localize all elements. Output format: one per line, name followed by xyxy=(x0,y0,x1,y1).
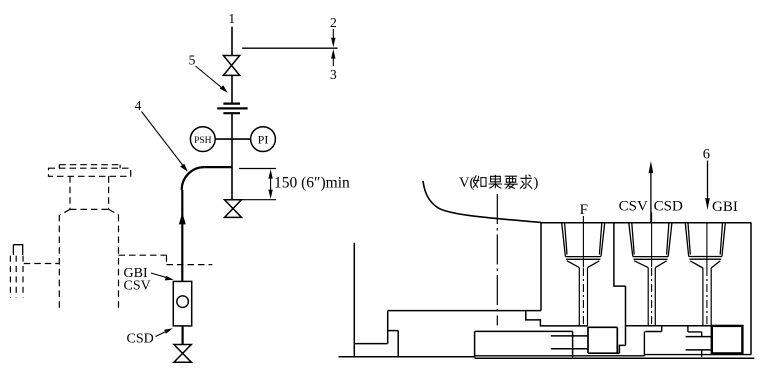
arrow CSV/CSD up xyxy=(650,173,652,223)
left wall vertical xyxy=(387,311,389,344)
svg-text:PSH: PSH xyxy=(194,136,212,146)
wellhead chamfers (dashed) xyxy=(60,209,118,214)
valve CSD (bowtie) xyxy=(174,345,191,363)
svg-text:V(: V( xyxy=(459,175,474,191)
svg-text:1: 1 xyxy=(228,11,235,26)
wire between valve and orifice xyxy=(231,75,233,103)
valve body GBI/CSV rectangle xyxy=(173,281,191,326)
wire gauges connector xyxy=(215,138,250,140)
arrow 6 down to GBI xyxy=(707,161,709,200)
svg-text:PI: PI xyxy=(258,133,269,147)
centerline F xyxy=(582,216,584,267)
tube F xyxy=(579,268,587,326)
right ledge xyxy=(644,354,751,356)
box B1 xyxy=(588,327,619,353)
branch step (dashed) xyxy=(166,255,168,264)
block left edge xyxy=(540,222,542,310)
tube CSV xyxy=(648,268,655,326)
glyphs ruguoyaoqiu (hand-drawn CJK) xyxy=(473,175,533,189)
svg-text:): ) xyxy=(534,175,539,191)
B1 jog xyxy=(619,345,625,353)
elbow arc xyxy=(182,167,205,190)
cup GBI xyxy=(685,223,725,268)
fork lines left xyxy=(551,336,588,349)
svg-text:CSV: CSV xyxy=(619,198,648,214)
ledge horizontal 310 xyxy=(388,310,541,312)
tube GBI xyxy=(703,268,711,326)
centerline CSV xyxy=(651,213,653,268)
left shelf xyxy=(354,343,387,345)
leader GBI/CSV xyxy=(151,273,169,278)
svg-text:3: 3 xyxy=(330,67,337,82)
gauge PSH xyxy=(190,127,215,152)
flowline profile curve xyxy=(423,181,541,222)
leader from 5 xyxy=(196,66,225,90)
svg-text:2: 2 xyxy=(330,15,337,30)
fork lines right xyxy=(686,337,712,350)
right block xyxy=(339,146,755,358)
gauge PI xyxy=(251,127,276,152)
wellhead neck (dashed) xyxy=(70,176,109,209)
side outlet box xyxy=(13,245,22,255)
staircase under 310 ledge xyxy=(526,311,588,326)
flow line vertical xyxy=(181,190,183,282)
wellhead flange rect (dashed) xyxy=(49,168,131,176)
RIGHT-DIAGRAM xyxy=(423,175,541,326)
shelf right of CSV xyxy=(688,326,702,337)
svg-text:150 (6″)min: 150 (6″)min xyxy=(274,175,350,192)
internal vertical 625 xyxy=(625,286,627,345)
wire below valve body xyxy=(182,326,184,345)
centerline V (dash-dot) xyxy=(496,194,498,325)
svg-text:CSD: CSD xyxy=(127,332,154,347)
baseline xyxy=(339,357,755,358)
cup CSV xyxy=(629,223,672,268)
arrow 2 down xyxy=(332,29,334,38)
cup F xyxy=(562,223,605,268)
svg-text:CSV: CSV xyxy=(124,278,151,293)
internal step 614 xyxy=(614,222,626,286)
node line 2-3 xyxy=(242,47,338,49)
left stub horizontal xyxy=(388,330,399,332)
left box xyxy=(475,331,573,357)
svg-text:F: F xyxy=(580,202,588,218)
drop vertical 644 xyxy=(643,332,645,356)
flow arrow up xyxy=(179,212,186,224)
valve body circle xyxy=(177,296,189,308)
dimension tick top xyxy=(239,168,276,170)
left box bottom xyxy=(475,355,645,357)
elbow horizontal xyxy=(204,166,232,168)
valve 5 (needle valve bowtie) xyxy=(223,56,239,76)
bleed valve (bottom of vent) xyxy=(225,200,242,218)
block right edge xyxy=(750,222,752,354)
wellhead body walls (dashed) xyxy=(59,215,118,311)
side outlet flange lines (dashed) xyxy=(10,256,23,298)
leader from 4 xyxy=(142,112,185,168)
under-cups horizontal xyxy=(626,325,712,327)
wellhead flange top face (dashed) xyxy=(59,165,120,169)
side outlet connect line (dashed) xyxy=(24,263,60,265)
fork drop to base xyxy=(701,350,703,357)
centerline GBI xyxy=(706,223,708,268)
svg-text:GBI: GBI xyxy=(712,199,738,215)
arrow 3 up xyxy=(332,58,334,66)
shelf under CSV xyxy=(645,326,661,332)
block top line xyxy=(541,222,751,224)
branch line upper (dashed) xyxy=(119,254,167,256)
right box (bold) xyxy=(712,326,743,354)
svg-text:5: 5 xyxy=(189,53,196,68)
orifice/flange fitting xyxy=(223,102,240,104)
svg-text:CSD: CSD xyxy=(654,198,683,214)
wire through gauges xyxy=(231,113,233,200)
dimension arrows xyxy=(270,177,272,192)
wire vent line top xyxy=(231,27,233,56)
svg-text:4: 4 xyxy=(135,98,142,113)
far left vertical xyxy=(353,243,355,357)
leader CSD xyxy=(156,330,169,336)
branch line lower (dashed) xyxy=(167,264,213,266)
left stub vertical xyxy=(397,331,399,357)
svg-text:6: 6 xyxy=(703,146,710,162)
dimension tick bottom xyxy=(242,199,277,201)
wellhead shoulder line (dashed) xyxy=(70,208,109,210)
